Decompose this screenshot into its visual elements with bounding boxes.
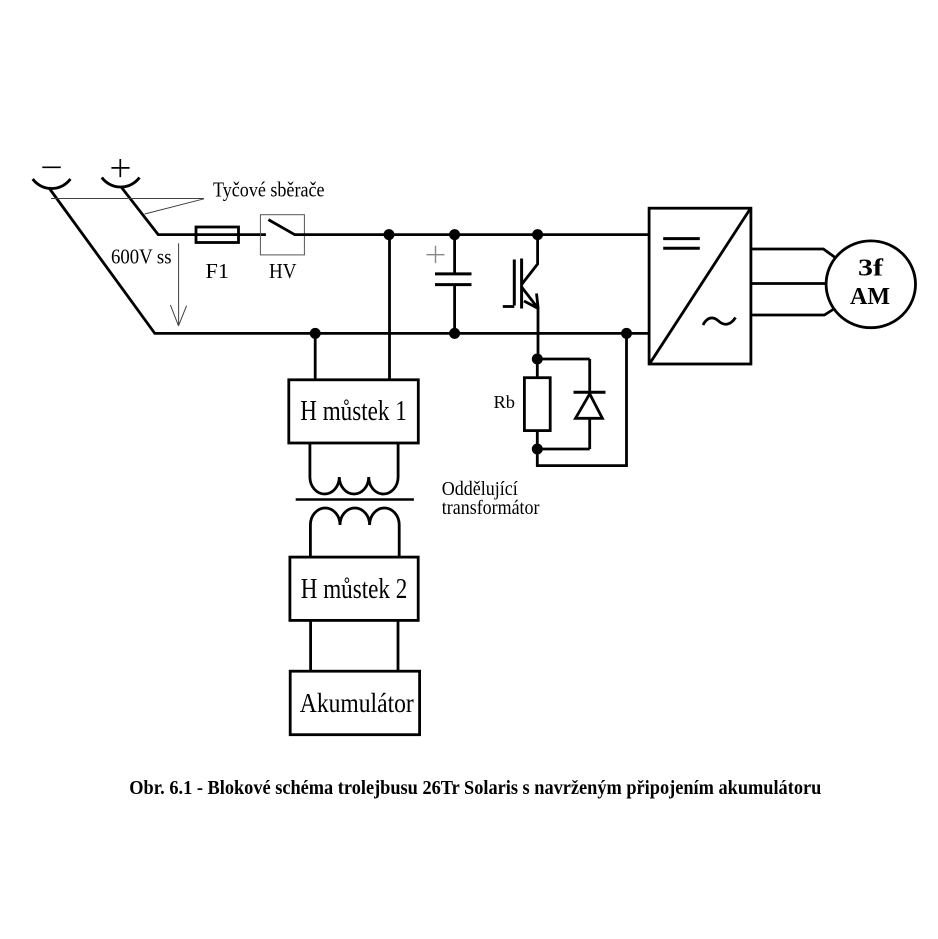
resistor Rb <box>524 378 550 431</box>
svg-text:600V ss: 600V ss <box>111 245 172 269</box>
collector P1 (negative trolley shoe) <box>33 179 71 189</box>
IGBT gate lead <box>503 305 515 308</box>
IGBT collector lead <box>522 235 538 285</box>
svg-text:AM: AM <box>850 284 890 310</box>
capacitor polarity plus <box>427 246 445 263</box>
disconnector HV box <box>260 215 304 255</box>
fuse F1 <box>196 227 239 243</box>
svg-text:3f: 3f <box>858 256 884 282</box>
wire H-bridge feed (crosses bottom bus) <box>388 235 391 380</box>
junction capacitor top <box>449 229 460 240</box>
diode D bottom lead <box>588 418 591 449</box>
H bridge 1 box <box>289 380 419 443</box>
svg-text:transformátor: transformátor <box>442 497 540 519</box>
wire top bus <box>295 233 650 236</box>
battery wire left <box>309 620 312 671</box>
transformer primary winding <box>310 443 398 494</box>
junction brake return on bus <box>621 328 632 339</box>
capacitor C bottom lead <box>453 286 456 333</box>
wire positive feed (diagonal + through fuse to switch) <box>121 187 266 235</box>
motor M1 circle <box>826 241 915 328</box>
junction brake top <box>532 354 543 365</box>
wire brake bottom to diode <box>537 448 589 451</box>
junction H-bridge tap <box>310 328 321 339</box>
capacitor C plates <box>435 274 472 285</box>
IGBT emitter wire down <box>537 309 540 360</box>
plus sign <box>111 159 129 177</box>
transformer secondary winding <box>310 508 399 557</box>
junction brake bottom <box>532 444 543 455</box>
junction IGBT collector <box>532 229 543 240</box>
svg-text:Obr. 6.1 - Blokové schéma trol: Obr. 6.1 - Blokové schéma trolejbusu 26T… <box>129 777 821 799</box>
IGBT gate bar <box>513 260 516 306</box>
resistor Rb top lead <box>536 359 539 378</box>
battery box <box>290 671 419 735</box>
collector P2 (positive trolley shoe) <box>102 178 140 188</box>
battery wire right <box>397 620 400 671</box>
wire brake return <box>537 333 626 465</box>
wire brake top to diode <box>537 358 589 361</box>
junction top bus left <box>384 229 395 240</box>
diode D cathode bar <box>574 391 606 394</box>
resistor Rb bottom lead <box>536 431 539 449</box>
minus sign <box>42 166 61 168</box>
inverter U1 box <box>649 208 751 364</box>
H bridge 2 box <box>290 557 418 620</box>
capacitor C top lead <box>453 235 456 273</box>
inverter diagonal <box>650 210 750 363</box>
pointer line to label (horizontal) <box>51 198 204 200</box>
wire negative rail (diagonal + bottom bus) <box>49 188 649 334</box>
phase wire W <box>751 309 835 316</box>
svg-text:Rb: Rb <box>494 392 516 412</box>
phase wire U <box>751 249 835 257</box>
svg-text:Akumulátor: Akumulátor <box>300 687 414 718</box>
svg-text:F1: F1 <box>206 259 230 283</box>
svg-text:H můstek 2: H můstek 2 <box>301 574 408 605</box>
wire H-bridge return <box>314 333 317 379</box>
arrow 600V feed <box>170 243 186 325</box>
disconnector HV blade <box>268 220 295 235</box>
phase wire V <box>751 282 827 285</box>
junction capacitor bottom <box>449 328 460 339</box>
svg-text:H můstek 1: H můstek 1 <box>300 396 407 427</box>
pointer line to label (slanted) <box>145 199 204 214</box>
inverter AC symbol <box>703 318 736 326</box>
diode D triangle <box>576 394 603 419</box>
transformer core bar <box>296 498 414 501</box>
IGBT emitter lead with arrow <box>522 287 539 309</box>
svg-text:HV: HV <box>269 259 297 283</box>
IGBT body bar <box>520 259 523 309</box>
svg-text:Tyčové sběrače: Tyčové sběrače <box>213 178 325 202</box>
diode D top lead <box>588 359 591 392</box>
inverter DC symbol <box>663 239 700 249</box>
